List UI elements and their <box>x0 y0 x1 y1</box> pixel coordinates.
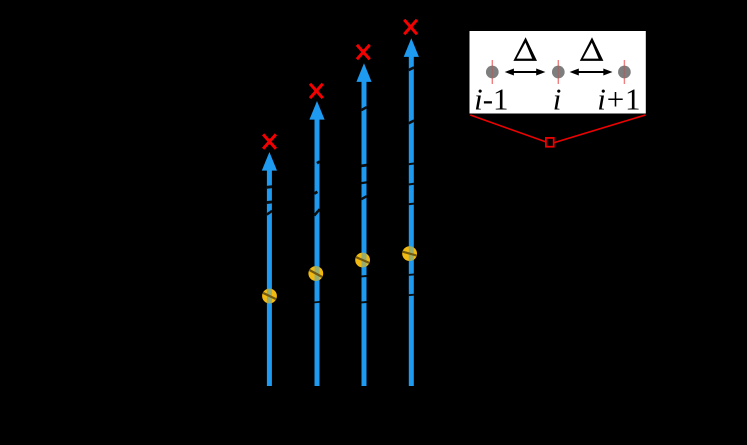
svg-text:i: i <box>553 82 562 117</box>
svg-text:i+1: i+1 <box>597 82 641 117</box>
svg-text:i-1: i-1 <box>474 82 508 117</box>
